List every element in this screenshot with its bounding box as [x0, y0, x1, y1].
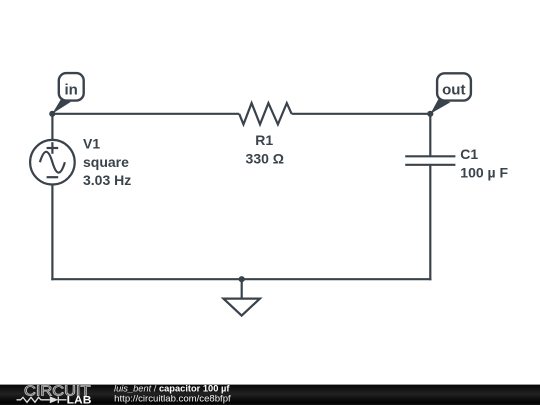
logo CIRCUIT: [17, 383, 92, 405]
ground: [223, 276, 260, 316]
wire top right: [292, 113, 431, 115]
wire bottom: [51, 278, 431, 280]
wire right upper: [429, 114, 431, 157]
resistor R1: [239, 103, 291, 124]
svg-text:in: in: [65, 81, 78, 98]
footer bar: [0, 385, 540, 405]
wire right lower: [429, 165, 431, 280]
svg-text:100 µ F: 100 µ F: [460, 165, 508, 181]
svg-text:330 Ω: 330 Ω: [246, 150, 284, 166]
flag in: [52, 73, 83, 114]
node out dot: [427, 111, 433, 117]
label R1: [246, 132, 284, 166]
label C1: [460, 146, 508, 180]
node in dot: [49, 111, 55, 117]
svg-text:LAB: LAB: [67, 395, 92, 405]
wire left lower: [51, 184, 53, 280]
wire left upper: [51, 114, 53, 140]
wire top left: [52, 113, 239, 115]
svg-text:V1: V1: [83, 135, 100, 151]
flag out: [430, 73, 471, 113]
svg-text:square: square: [83, 154, 129, 170]
svg-text:3.03 Hz: 3.03 Hz: [83, 172, 131, 188]
label V1: [83, 135, 131, 188]
capacitor C1: [405, 156, 455, 165]
svg-text:out: out: [442, 82, 465, 99]
svg-text:http://circuitlab.com/ce8bfpf: http://circuitlab.com/ce8bfpf: [114, 394, 231, 404]
svg-text:luis_bent / capacitor 100 µf: luis_bent / capacitor 100 µf: [114, 383, 230, 393]
svg-text:C1: C1: [460, 146, 478, 162]
voltage source V1: [30, 140, 75, 185]
svg-text:R1: R1: [255, 132, 273, 148]
